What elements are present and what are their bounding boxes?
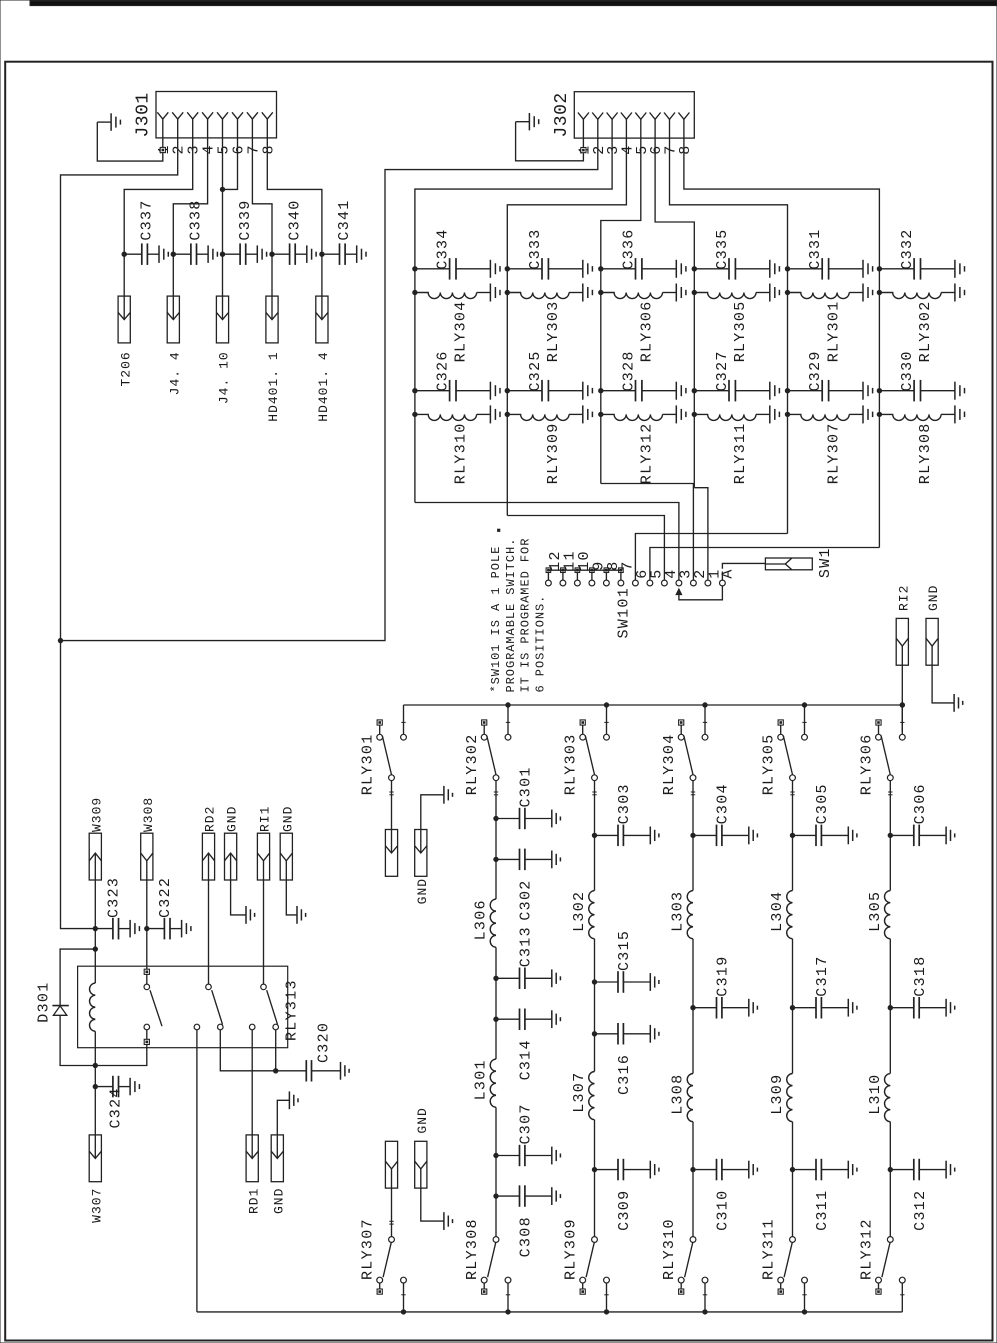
capacitor C307 (496, 1145, 560, 1166)
junction node C311 (790, 1167, 794, 1171)
RLY310 moving contact (690, 1237, 696, 1243)
RLY308 fixed contact right (505, 1277, 511, 1283)
J301 pin number 7 (245, 144, 262, 154)
inductor L306 (490, 899, 496, 947)
label C301 (518, 766, 535, 807)
junction node C339 (220, 252, 224, 256)
note line 3 (519, 538, 533, 693)
label J301 (134, 92, 154, 137)
tick mark RLY311 (802, 1294, 806, 1296)
junction node C328 (599, 389, 603, 393)
ground at GND right (954, 694, 963, 712)
svg-text:RLY305: RLY305 (732, 300, 749, 362)
junction node C333 (505, 267, 509, 271)
svg-text:RLY309: RLY309 (563, 1218, 580, 1280)
label RLY312 (639, 422, 656, 484)
label RLY305 (732, 300, 749, 362)
label C308 (518, 1216, 535, 1257)
junction node RLY304 coil (413, 290, 417, 294)
junction node RLY311 coil (692, 412, 696, 416)
wire rail RLY304 column (692, 835, 694, 1236)
wire J301 pin1 to ground (97, 122, 163, 161)
label C326 (435, 350, 452, 391)
junction node RLY307 coil (785, 412, 789, 416)
capacitor C301 (496, 808, 560, 829)
RLY311 fixed contact left (778, 1277, 784, 1289)
junction node C307 (494, 1153, 498, 1157)
RLY309 moving contact (592, 1237, 598, 1243)
RLY312 arm (882, 1242, 890, 1277)
J301 pin number 3 (186, 144, 203, 154)
terminal T206 (118, 296, 130, 343)
label C307 (518, 1103, 535, 1144)
svg-text:RLY303: RLY303 (563, 733, 580, 795)
inductor L302 (589, 891, 595, 939)
svg-text:C314: C314 (518, 1039, 535, 1080)
J302 pin number 5 (634, 144, 651, 154)
junction node D301 top (93, 947, 97, 951)
label C334 (435, 228, 452, 269)
RLY313 pole2 left contact (194, 1024, 200, 1030)
RLY303 fixed contact left (580, 725, 586, 740)
svg-text:RLY302: RLY302 (464, 733, 481, 795)
junction node C329 (785, 389, 789, 393)
RLY306 moving contact (887, 775, 893, 781)
svg-text:RI2: RI2 (896, 585, 911, 611)
svg-text:C333: C333 (527, 228, 544, 269)
wire W309 rail (94, 880, 96, 949)
label RLY303 (563, 733, 580, 795)
svg-text:RLY308: RLY308 (464, 1218, 481, 1280)
svg-text:T206: T206 (118, 351, 133, 386)
label W307 (89, 1188, 104, 1223)
RLY305 fixed contact right (802, 734, 808, 740)
svg-text:8: 8 (260, 144, 277, 154)
svg-text:GND: GND (280, 806, 295, 832)
label C327 (714, 350, 731, 391)
capacitor C328 (601, 380, 686, 402)
SW101 wiper arrow (676, 589, 682, 595)
junction node C326 (413, 389, 417, 393)
RLY303 arm (585, 736, 594, 776)
J301 pin number 8 (260, 144, 277, 154)
svg-text:W308: W308 (141, 797, 156, 832)
SW101 position label 12 (547, 550, 564, 571)
svg-text:C307: C307 (518, 1103, 535, 1144)
label RLY309 (545, 422, 562, 484)
wire GND near RLY307 (421, 1188, 444, 1221)
svg-text:*SW101 IS A 1 POLE: *SW101 IS A 1 POLE (489, 546, 503, 693)
svg-text:RLY302: RLY302 (917, 300, 934, 362)
capacitor C303 (595, 825, 659, 847)
wire column C333 to SW101 pos4 (507, 516, 664, 572)
capacitor C315 (595, 971, 659, 993)
svg-text:C326: C326 (435, 350, 452, 391)
wire rail column C331 (787, 269, 789, 534)
junction node RLY310 coil (413, 412, 417, 416)
label GND near RLY307 (415, 1107, 430, 1133)
svg-text:D301: D301 (36, 981, 53, 1022)
junction node C325 (505, 389, 509, 393)
relay coil RLY312 (601, 405, 686, 423)
wire pole2 left to bottom bus (196, 1030, 198, 1312)
RLY313 pole2 top contact (206, 984, 212, 990)
SW101 position label 10 (576, 550, 593, 571)
label RI1 x264 (258, 806, 273, 832)
label RLY301 (360, 733, 377, 795)
svg-text:L302: L302 (571, 891, 588, 932)
wire rail column C335 (693, 269, 695, 488)
capacitor C336 (601, 258, 686, 280)
SW101 position label 1 (706, 568, 723, 578)
svg-text:RD2: RD2 (203, 806, 218, 832)
wire coil to bottom (94, 1031, 96, 1086)
wire J302 pin6 to column C335 (655, 138, 694, 269)
RLY304 moving contact (690, 775, 696, 781)
inductor L309 (787, 1074, 793, 1122)
SW101 position label 2 (692, 568, 709, 578)
svg-text:RLY305: RLY305 (761, 733, 778, 795)
junction node C314 (494, 1017, 498, 1021)
tick marks RLY303 (592, 792, 596, 795)
junction node C302 (494, 857, 498, 861)
label J302 (552, 92, 572, 137)
RLY301 pin square (377, 720, 382, 725)
RLY301 fixed contact right (401, 734, 407, 740)
wire RD2 to pole2 (208, 880, 210, 984)
label GND x286 (280, 806, 295, 832)
RLY302 fixed contact left (481, 725, 487, 740)
wire bus drop RLY303 (604, 705, 608, 734)
RLY307 moving contact (389, 1237, 395, 1243)
svg-text:RLY303: RLY303 (545, 300, 562, 362)
inductor L310 (885, 1074, 891, 1122)
label RLY302 (464, 733, 481, 795)
junction node C318 (888, 1006, 892, 1010)
RLY302 moving contact (493, 775, 499, 781)
capacitor C320 (276, 1060, 349, 1081)
junction node C340 (270, 252, 274, 256)
tick marks RLY307 wire (389, 1221, 393, 1224)
relay coil RLY304 (415, 284, 500, 302)
RLY307 fixed contact left (377, 1277, 383, 1289)
svg-text:RD1: RD1 (246, 1188, 261, 1214)
terminal RD1 (246, 1135, 258, 1182)
RLY309 fixed contact right (604, 1277, 610, 1283)
svg-text:8: 8 (677, 144, 694, 154)
svg-text:RLY310: RLY310 (661, 1218, 678, 1280)
wire J301 pin8 (267, 138, 322, 254)
wire column C332 to SW101 pos5 (650, 548, 880, 572)
svg-text:C316: C316 (616, 1054, 633, 1095)
wire RLY303 down (594, 781, 596, 836)
svg-text:J301: J301 (134, 92, 154, 137)
svg-text:C336: C336 (621, 228, 638, 269)
capacitor C335 (694, 258, 779, 280)
wire GND right (932, 665, 954, 703)
label RD2 x208 (203, 806, 218, 832)
terminal W309 x95 (89, 833, 101, 880)
relay coil RLY310 (415, 405, 500, 423)
label C333 (527, 228, 544, 269)
SW101 position label 4 (663, 568, 680, 578)
junction node C327 (692, 389, 696, 393)
RLY310 fixed contact left (678, 1277, 684, 1289)
terminal SW1 (765, 558, 812, 570)
svg-text:C306: C306 (912, 783, 929, 824)
tick marks RLY301 (389, 792, 393, 795)
J302 pin1 square marker (581, 148, 586, 153)
label RLY307 (825, 422, 842, 484)
svg-text:6 POSITIONS.: 6 POSITIONS. (534, 595, 548, 693)
label J4. 4 (167, 351, 182, 395)
junction node C322 (145, 926, 149, 930)
label L309 (769, 1074, 786, 1115)
wire coil feed (94, 949, 96, 983)
wire column C335 to SW101 pos1 (694, 488, 708, 572)
connector J301 (156, 92, 277, 138)
label C313 (518, 926, 535, 967)
junction node RLY306 coil (599, 290, 603, 294)
svg-text:C329: C329 (807, 350, 824, 391)
label C304 (715, 783, 732, 824)
RLY308 arm (488, 1242, 496, 1277)
label C306 (912, 783, 929, 824)
relay coil RLY301 (788, 284, 873, 302)
label RLY304 (661, 733, 678, 795)
capacitor C325 (507, 380, 592, 402)
relay RLY313 box (78, 966, 288, 1047)
terminal HD401. 1 (266, 296, 278, 343)
RLY301 moving contact (389, 775, 395, 781)
svg-text:C310: C310 (715, 1190, 732, 1231)
wire column C331 to SW101 pos6 (635, 534, 787, 572)
svg-text:L304: L304 (769, 891, 786, 932)
junction node bottom bus RLY310 (703, 1310, 707, 1314)
svg-text:RLY301: RLY301 (360, 733, 377, 795)
SW101 position label 7 (619, 560, 636, 570)
junction node bottom bus RLY309 (604, 1310, 608, 1314)
svg-text:L305: L305 (867, 891, 884, 932)
svg-text:HD401. 4: HD401. 4 (316, 351, 331, 421)
svg-text:RI1: RI1 (258, 806, 273, 832)
J301 pin number 6 (231, 144, 248, 154)
label GND near RLY301 (415, 878, 430, 904)
tick mark RLY309 (604, 1294, 608, 1296)
RLY303 moving contact (592, 775, 598, 781)
label C341 (336, 199, 353, 240)
inductor L305 (885, 891, 891, 939)
junction node C304 (691, 833, 695, 837)
RLY302 fixed contact right (505, 734, 511, 740)
J301 pin number 5 (216, 144, 233, 154)
svg-text:RLY311: RLY311 (732, 422, 749, 484)
svg-text:C325: C325 (527, 350, 544, 391)
capacitor C318 (890, 997, 954, 1019)
RLY306 fixed contact left (876, 725, 882, 740)
label L305 (867, 891, 884, 932)
label C340 (286, 199, 303, 240)
capacitor C334 (415, 258, 500, 280)
junction node RLY312 coil (599, 412, 603, 416)
wire RLY309 to bottom bus (606, 1283, 608, 1312)
SW101 position label 8 (605, 560, 622, 570)
label RLY304 (453, 300, 470, 362)
relay coil RLY306 (601, 284, 686, 302)
svg-text:C324: C324 (108, 1087, 125, 1128)
label C328 (621, 350, 638, 391)
junction node C335 (692, 267, 696, 271)
relay coil RLY308 (879, 405, 964, 423)
RLY313 pole1 top contact (144, 974, 150, 989)
svg-text:W309: W309 (89, 797, 104, 832)
label RLY303 (545, 300, 562, 362)
capacitor C309 (595, 1159, 659, 1181)
capacitor C308 (496, 1185, 560, 1207)
svg-text:C301: C301 (518, 766, 535, 807)
label C324 (108, 1087, 125, 1128)
svg-text:GND: GND (415, 1107, 430, 1133)
capacitor C305 (793, 825, 857, 847)
junction node C332 (877, 267, 881, 271)
wire pole3 left to RD1 (251, 1030, 253, 1135)
junction node C331 (785, 267, 789, 271)
wire J301 pin3 (124, 138, 193, 254)
RLY313 pole3 left contact (249, 1024, 255, 1030)
label J4. 10 (217, 351, 232, 404)
RLY308 moving contact (493, 1237, 499, 1243)
svg-text:C315: C315 (616, 930, 633, 971)
wire J302 pin8 to column C332 (684, 138, 880, 269)
junction node C306 (888, 833, 892, 837)
RLY305 fixed contact left (778, 725, 784, 740)
note mark dot (498, 529, 500, 531)
label SW101 (616, 587, 633, 639)
svg-text:C338: C338 (188, 199, 205, 240)
note line 2 (504, 538, 518, 693)
wire rail RLY302 column (495, 819, 497, 1237)
RLY311 fixed contact right (802, 1277, 808, 1283)
SW101 position label 6 (634, 568, 651, 578)
wire RLY311 to bottom bus (804, 1283, 806, 1312)
wire rail column C334 (414, 269, 416, 503)
SW101 position label A (720, 568, 737, 578)
label RLY308 (917, 422, 934, 484)
junction node C317 (790, 1006, 794, 1010)
capacitor C311 (793, 1159, 857, 1181)
inductor L308 (687, 1074, 693, 1122)
wire rail RLY305 column (792, 835, 794, 1236)
wire rail column C332 (878, 269, 880, 548)
label W308 x147 (141, 797, 156, 832)
svg-text:C308: C308 (518, 1216, 535, 1257)
wire bus drop RLY301 (401, 705, 405, 734)
terminal J4. 4 (167, 296, 179, 343)
label C312 (912, 1190, 929, 1231)
RLY306 pin square (876, 720, 881, 725)
relay coil RLY309 (507, 405, 592, 423)
svg-text:C319: C319 (715, 955, 732, 996)
svg-text:RLY301: RLY301 (825, 300, 842, 362)
wire pole1 to D301 net (95, 1045, 147, 1066)
label L301 (473, 1059, 490, 1100)
wire rail RLY303 column (594, 835, 596, 1236)
tick mark RLY308 (506, 1294, 510, 1296)
junction node C305 (790, 833, 794, 837)
svg-text:RLY306: RLY306 (639, 300, 656, 362)
svg-text:RLY313: RLY313 (284, 979, 301, 1041)
svg-text:C334: C334 (435, 228, 452, 269)
svg-text:J4. 10: J4. 10 (217, 351, 232, 404)
RLY308 fixed contact left (481, 1277, 487, 1289)
wire pole3 right to C320 node (275, 1030, 277, 1071)
tick marks RLY304 (691, 792, 695, 795)
label C310 (715, 1190, 732, 1231)
svg-text:C340: C340 (286, 199, 303, 240)
junction node C341 (320, 252, 324, 256)
capacitor C316 (595, 1023, 659, 1045)
label C303 (616, 783, 633, 824)
label C311 (814, 1190, 831, 1231)
page top edge bar (30, 1, 997, 6)
junction node C336 (599, 267, 603, 271)
capacitor C313 (496, 968, 560, 990)
junction node C315 (592, 980, 596, 984)
RLY313 pole2 right contact (218, 1024, 224, 1030)
svg-text:C335: C335 (714, 228, 731, 269)
label RLY307 (360, 1218, 377, 1280)
label C322 (157, 877, 174, 918)
wire J301 pin6 (223, 138, 238, 190)
junction node at C323 (93, 926, 97, 930)
capacitor C304 (693, 825, 757, 847)
junction node C310 (691, 1167, 695, 1171)
junction node C330 (877, 389, 881, 393)
terminal GND right (926, 618, 938, 665)
label RI2 (896, 585, 911, 611)
wire RI1 to pole3 (263, 880, 265, 984)
capacitor C341 (322, 243, 366, 265)
label RLY312 (858, 1218, 875, 1280)
label W309 x95 (89, 797, 104, 832)
label RLY305 (761, 733, 778, 795)
relay coil RLY307 (788, 405, 873, 423)
RLY304 arm (684, 736, 693, 776)
RLY312 moving contact (887, 1237, 893, 1243)
svg-text:HD401. 1: HD401. 1 (266, 351, 281, 421)
RLY313 pole1 pin square top (144, 969, 149, 974)
junction node C308 (494, 1194, 498, 1198)
junction node C312 (888, 1167, 892, 1171)
wire J302 pin3 to column C334 (415, 138, 612, 269)
wire RLY312 to bottom bus (901, 1283, 903, 1312)
RLY313 pole1 pin square bottom (144, 1039, 149, 1044)
note line 1 (489, 546, 503, 693)
SW101 position label 11 (561, 550, 578, 571)
ground at GND upper-1 (246, 906, 255, 924)
svg-text:C327: C327 (714, 350, 731, 391)
svg-text:PROGRAMABLE SWITCH.: PROGRAMABLE SWITCH. (504, 538, 518, 693)
label C338 (188, 199, 205, 240)
svg-text:IT IS PROGRAMED FOR: IT IS PROGRAMED FOR (519, 538, 533, 693)
label D301 (36, 981, 53, 1022)
svg-text:L301: L301 (473, 1059, 490, 1100)
inductor L304 (787, 891, 793, 939)
J302 pin number 8 (677, 144, 694, 154)
RLY307 fixed contact right (401, 1277, 407, 1283)
svg-text:C330: C330 (899, 350, 916, 391)
terminal GND x231 (225, 833, 237, 880)
